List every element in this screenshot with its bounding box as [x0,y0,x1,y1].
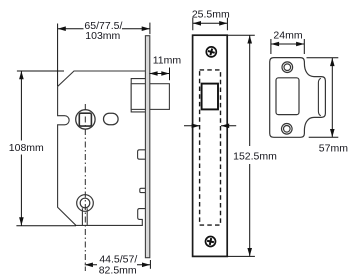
svg-text:25.5mm: 25.5mm [192,9,230,21]
dimension 57mm [307,58,339,138]
dimension 24mm [271,39,304,54]
channel width arrows [184,125,236,127]
bottom fixing hole inner [80,198,90,208]
svg-text:11mm: 11mm [153,54,182,66]
strike plate cutout [276,78,299,115]
svg-text:152.5mm: 152.5mm [233,150,277,162]
dimension 65/77.5/103mm [58,23,150,86]
latch bolt (side view) [131,84,169,110]
latch bolt housing [131,79,145,112]
strike screw hole top [282,62,293,73]
strike plate outline with lip [270,58,326,138]
strike plate lip fold line [318,78,320,116]
svg-text:82.5mm: 82.5mm [99,265,137,277]
svg-text:108mm: 108mm [9,142,44,154]
dimension 108mm [16,71,76,226]
dimension 25.5mm [193,18,228,30]
top screw [206,47,216,57]
svg-text:24mm: 24mm [273,29,302,41]
dimension 44.5/57/82.5mm backset [85,260,151,269]
strike screw hole bottom [282,124,293,135]
spindle follower circle [76,110,95,129]
fixing lug tab 1 [138,150,146,159]
dimension 11mm [149,68,169,81]
forend faceplate (side view) [145,36,149,258]
vertical centerline [84,104,86,271]
bottom screw [206,237,216,247]
dimension 152.5mm [228,35,255,256]
fixing lug tab 2 [140,188,146,192]
spindle square hole [79,113,91,126]
slot below fixing hole [82,208,87,225]
faceplate front view [193,35,228,256]
svg-text:103mm: 103mm [85,30,120,42]
lock body outline (side view) [58,71,146,225]
latch bolt (front view) [202,84,218,110]
oval fixing slot [104,113,119,124]
svg-text:44.5/57/: 44.5/57/ [99,253,137,265]
svg-text:57mm: 57mm [319,142,348,154]
bottom fixing hole outer [77,195,94,212]
latch channel dashed outline [200,70,221,225]
